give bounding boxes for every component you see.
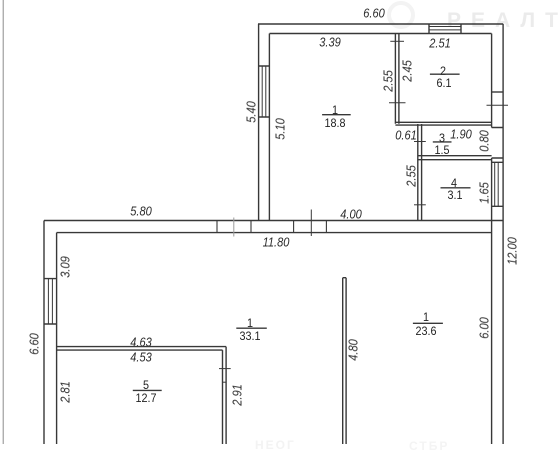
room 1 (18.8) area [324,117,345,129]
dimension 5.80 [130,204,152,217]
room 4 area [448,189,463,201]
wall between room 1 and room 2 [395,34,399,124]
dimension 5.40 [244,101,257,123]
dimension 2.55 upper [381,70,394,92]
window on upper-left wall: caps [259,66,270,117]
window on lower-left wall: panes [48,279,52,324]
dimension 6.00 [477,317,490,339]
window 1.65 on right wall: panes [495,162,499,206]
fraction bar room 1 (18.8) [322,114,351,116]
room 1 (23.6) area [415,325,436,337]
dimension 2.51 [430,36,452,49]
room 5 top wall [57,347,227,351]
lower block: left wall outer [43,221,45,445]
dimension 1.65 [477,182,490,204]
room 2 number [440,65,446,77]
window 1.65 on right wall: caps [492,162,504,206]
lower block: top wall inner [57,232,492,234]
gray center line of window [233,218,235,237]
dimension 2.55 lower [404,165,417,187]
right wall inner (gap for door 0.80) [491,34,493,445]
partition wall 4.80 [343,278,346,444]
room 3 area [434,144,449,156]
fraction bar room 1 (23.6) [413,322,443,324]
watermark fragment bottom right [409,439,449,453]
dimension 3.09 [58,256,71,278]
dimension 2.45 [400,60,413,82]
door opening ticks on lower top wall [294,221,327,233]
tick on room1/4 wall [414,204,426,206]
room 2 area [436,77,451,89]
room 3 number [439,132,445,144]
upper block: left wall inner [268,34,270,221]
tick on room1/2 wall (top) [390,40,404,42]
dimension 12.00 [505,237,518,265]
room 4 number [451,177,457,189]
fraction bar room 2 [430,73,460,75]
fraction bar room 1 (33.1) [236,327,266,329]
lower block: top wall outer [44,220,503,222]
window on upper-left wall: panes [262,66,266,117]
window on lower-left wall: caps [44,279,57,324]
left dimension extension line [2,0,4,444]
fraction bar room 4 [441,187,471,189]
dimension 6.60 top [363,7,385,20]
dimension 3.39 [320,35,342,48]
upper block: top wall inner [270,33,492,35]
window ticks on lower top wall [217,221,251,233]
door 0.80 jamb caps [492,128,504,159]
dimension 0.61 [395,128,417,141]
window on top wall: end caps [429,24,461,34]
tick on room1/2 wall [389,102,406,104]
fraction bar room 3 [433,141,452,143]
dimension 4.00 [340,207,362,220]
tick on room 5 right wall [219,368,231,370]
room 5 number [143,379,149,391]
upper block: top wall outer [258,23,503,25]
room 2 bottom wall [395,122,491,125]
dimension 0.80 [478,130,491,152]
wall between room 1 and rooms 3/4 [418,124,422,221]
room 5 area [135,392,156,404]
dimension 2.91 [231,384,244,406]
dimension 4.80 [347,339,360,361]
right wall mark at room 2 [492,91,504,93]
lower block: left wall inner [56,233,58,444]
right wall tick [487,104,509,106]
window on top wall: panes [429,27,461,30]
room 1 (18.8) number [332,104,338,116]
room 1 (33.1) number [247,317,253,329]
watermark text top right [447,9,560,33]
room 1 (33.1) area [240,330,261,342]
dimension 4.63 [131,336,153,349]
right wall outer [502,24,504,444]
dimension 11.80 [263,236,290,249]
dimension 5.10 [273,118,286,140]
tick on room1/3 wall [414,141,426,143]
mark on room 5 right wall [223,381,227,383]
room 5 right wall [223,347,227,444]
watermark fragment bottom center [255,438,296,452]
dimension 1.90 [450,127,472,140]
dimension 4.53 [131,350,153,363]
dimension 6.60 left [27,333,40,355]
dimension 2.81 [59,381,72,403]
room 3 bottom wall [418,156,492,160]
extension tick on lower top wall [310,210,312,237]
room 1 (23.6) number [423,311,429,323]
fraction bar room 5 [133,389,162,391]
upper block: left wall outer [258,24,260,221]
